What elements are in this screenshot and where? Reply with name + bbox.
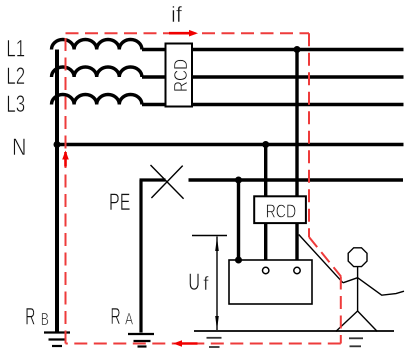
red arrow up on left vertical xyxy=(64,152,67,167)
svg-text:f: f xyxy=(203,273,209,295)
Uf dimension arrow up xyxy=(215,237,219,251)
break symbol X on PE conductor xyxy=(151,165,184,199)
wire L1 right segment xyxy=(192,48,404,51)
svg-text:if: if xyxy=(171,2,183,27)
wire L3 left segment xyxy=(142,103,166,106)
svg-text:R: R xyxy=(25,305,35,331)
fault current red dashed path: right vertical lower xyxy=(340,277,342,344)
terminal circle right xyxy=(294,267,300,273)
svg-text:R: R xyxy=(110,303,120,329)
person left leg xyxy=(336,311,358,332)
RCD U1 box xyxy=(166,44,193,107)
Uf dimension line xyxy=(216,237,218,331)
wire PE horizontal right of break xyxy=(189,178,404,181)
fault current red dashed path: diagonal along arm xyxy=(309,237,341,277)
wire L2 right segment xyxy=(192,75,404,78)
svg-text:PE: PE xyxy=(109,189,130,216)
inductor L2 winding xyxy=(52,67,142,77)
wire: RCD U2 output left xyxy=(264,223,267,267)
svg-text:B: B xyxy=(41,309,49,329)
svg-text:N: N xyxy=(12,134,26,161)
wire L1 left segment xyxy=(142,48,166,51)
node: PE tap junction xyxy=(235,177,242,184)
fault current red dashed path: bottom horizontal xyxy=(66,343,341,345)
earth hatch under person xyxy=(349,338,363,346)
ground symbol RB xyxy=(44,333,70,347)
svg-text:L2: L2 xyxy=(6,63,25,90)
svg-text:L3: L3 xyxy=(6,91,25,118)
wire: RCD U2 output right xyxy=(295,223,298,267)
earth hatch under Uf arrow xyxy=(207,338,222,347)
Uf dimension arrow down xyxy=(215,316,219,330)
wire L2 left segment xyxy=(142,75,166,78)
person head xyxy=(348,248,367,267)
wire PE horizontal left stub xyxy=(140,178,166,181)
ground symbol RA xyxy=(128,334,154,347)
wire L3 right segment xyxy=(192,103,404,106)
inductor L3 winding xyxy=(52,95,142,105)
fault contact line from conductor to person hand xyxy=(299,235,343,283)
node: N to bus junction xyxy=(54,141,61,148)
RCD U2 box xyxy=(254,196,306,223)
node: tap on N xyxy=(262,141,269,148)
svg-text:RCD: RCD xyxy=(170,59,191,92)
fault current red dashed path: top horizontal xyxy=(66,32,310,34)
node: tap on L1 xyxy=(294,46,301,53)
person right leg xyxy=(358,311,378,332)
wire N xyxy=(57,143,404,146)
node: PE at appliance case xyxy=(235,257,242,264)
svg-text:A: A xyxy=(125,310,133,328)
svg-text:RCD: RCD xyxy=(266,201,297,222)
Uf dimension top tick xyxy=(192,235,227,237)
fault current red dashed path: left vertical xyxy=(65,33,67,343)
inductor L1 winding xyxy=(52,40,142,50)
person body xyxy=(357,267,359,311)
bus: source star-point vertical conductor xyxy=(55,50,59,333)
red arrow right on top horizontal xyxy=(169,32,190,35)
fault current red dashed path: right vertical upper xyxy=(308,33,310,237)
appliance enclosure box xyxy=(229,260,312,304)
wire PE vertical xyxy=(139,180,142,333)
wire: N tap vertical to RCD U2 xyxy=(264,145,267,197)
person right arm xyxy=(358,278,404,296)
terminal circle left xyxy=(263,267,269,273)
svg-text:L1: L1 xyxy=(6,36,25,63)
svg-text:U: U xyxy=(188,269,200,296)
red arrow left on bottom horizontal xyxy=(181,342,198,345)
person left arm xyxy=(343,278,358,283)
wire: PE drop to appliance case xyxy=(237,180,240,260)
floor line xyxy=(194,330,394,332)
wire: L1 tap vertical to RCD U2 xyxy=(295,50,298,197)
